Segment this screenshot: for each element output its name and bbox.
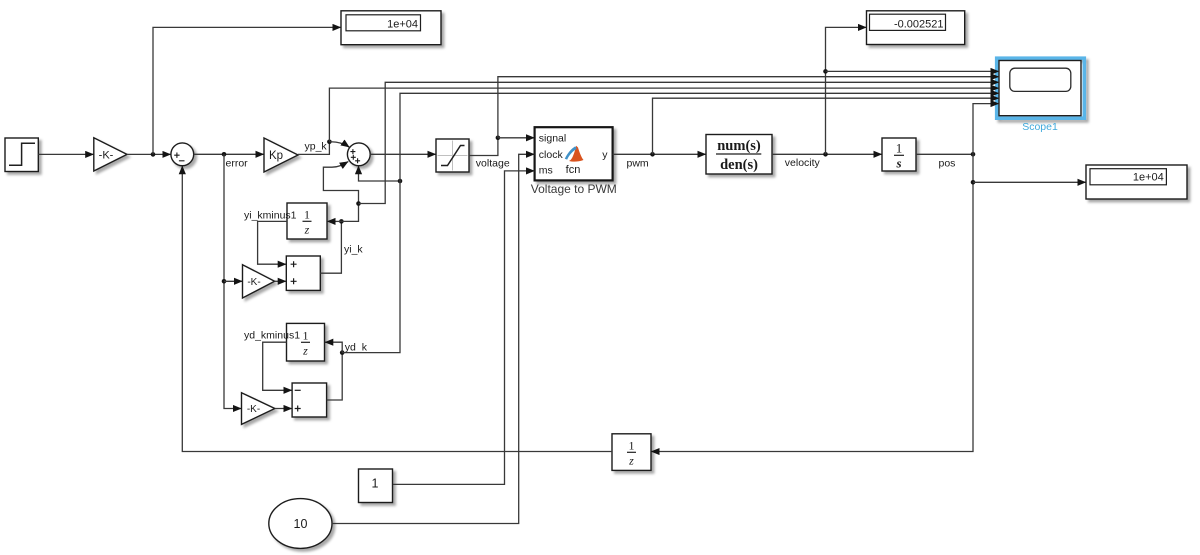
svg-text:pos: pos xyxy=(939,157,956,169)
constant ellipse 10 xyxy=(269,499,332,549)
sum3 circle (+ + +) xyxy=(347,143,370,166)
step source block xyxy=(5,138,38,172)
node pos xyxy=(971,152,976,157)
gain -K- (input scaling) xyxy=(94,138,127,171)
wire fcn y out to transfer fcn xyxy=(613,153,706,155)
wire tap up to display 1e+04 xyxy=(153,27,341,154)
svg-text:-K-: -K- xyxy=(99,149,114,161)
svg-text:num(s): num(s) xyxy=(717,138,761,154)
wire Kp out yp_k xyxy=(298,142,329,155)
gain -K- integral xyxy=(243,265,275,298)
svg-text:yi_kminus1: yi_kminus1 xyxy=(244,209,297,221)
wire yd 1/z out to yd sum xyxy=(263,342,292,390)
node velocity xyxy=(823,152,828,157)
svg-text:z: z xyxy=(302,344,308,358)
wire voltage up to scope port2 xyxy=(498,77,999,138)
saturation block xyxy=(436,139,469,172)
scope block Scope1 xyxy=(997,58,1085,133)
wire yi_k jog up xyxy=(341,204,358,222)
svg-text:Kp: Kp xyxy=(269,150,283,162)
wire yd_k branch into sum3 bottom input xyxy=(359,166,401,181)
sum1 circle (+ -) xyxy=(171,143,194,166)
svg-text:signal: signal xyxy=(539,132,566,144)
svg-text:Scope1: Scope1 xyxy=(1022,121,1058,133)
wire derivative gain to yd sum xyxy=(275,408,292,410)
yi sum block (+ +) xyxy=(286,256,320,290)
wire pwm up to scope port6 xyxy=(653,98,1000,154)
svg-text:-0.002521: -0.002521 xyxy=(894,19,944,31)
node pwm xyxy=(650,152,655,157)
svg-text:yi_k: yi_k xyxy=(344,244,363,256)
display block 1e+04 (bottom right) xyxy=(1086,165,1187,199)
svg-text:10: 10 xyxy=(294,517,308,531)
wire yi_k up to scope port3 xyxy=(359,82,1000,203)
wire pos down to feedback delay xyxy=(651,154,973,451)
svg-text:yd_kminus1: yd_kminus1 xyxy=(244,329,300,341)
svg-text:-K-: -K- xyxy=(247,277,260,288)
integrator block 1/s xyxy=(882,138,916,171)
wire pos to display 1e+04 (right) xyxy=(973,181,1086,183)
node yi_k upper xyxy=(356,201,361,206)
unit delay feedback 1/z (bottom) xyxy=(612,434,651,471)
wire yd_k up to scope port5 xyxy=(342,93,999,352)
node yp_k xyxy=(327,140,332,145)
wire constant 1 to fcn ms port xyxy=(393,171,535,485)
unit delay yi 1/z xyxy=(287,203,327,239)
wire velocity to scope port1 xyxy=(826,70,1000,72)
svg-text:velocity: velocity xyxy=(785,157,821,169)
wire error down to derivative gain xyxy=(224,154,242,408)
node error to integral gain xyxy=(222,279,227,284)
node velocity scope tap xyxy=(823,69,828,74)
wire velocity up to display -0.002521 xyxy=(826,27,867,154)
svg-text:y: y xyxy=(602,149,608,161)
wire constant 10 to fcn clock port xyxy=(332,154,535,523)
wire yd_k into 1/z input xyxy=(325,342,343,352)
wire feedback to sum1 bottom xyxy=(182,166,612,452)
svg-text:yp_k: yp_k xyxy=(305,141,328,153)
MATLAB function block Voltage to PWM xyxy=(531,127,617,196)
svg-text:1e+04: 1e+04 xyxy=(1133,171,1164,183)
svg-text:z: z xyxy=(628,454,634,468)
display block 1e+04 (top) xyxy=(341,11,441,45)
wire step to gain xyxy=(38,153,94,155)
node error xyxy=(222,152,227,157)
svg-text:-K-: -K- xyxy=(247,404,260,415)
constant block 1 xyxy=(359,469,393,503)
node pos display tap xyxy=(971,180,976,185)
svg-text:clock: clock xyxy=(539,149,564,161)
svg-text:1e+04: 1e+04 xyxy=(387,19,418,31)
svg-text:Voltage to PWM: Voltage to PWM xyxy=(531,182,617,196)
wire yi 1/z out to yi sum xyxy=(258,221,287,264)
svg-text:1: 1 xyxy=(896,141,903,156)
node yi_k xyxy=(339,219,344,224)
transfer fcn block num(s)/den(s) xyxy=(706,135,772,175)
unit delay yd 1/z xyxy=(287,323,325,361)
svg-text:pwm: pwm xyxy=(627,157,649,169)
gain Kp xyxy=(264,138,298,172)
wire pos up to scope port7 xyxy=(973,104,999,155)
wire gain to sum1 xyxy=(127,153,171,155)
wire velocity to integrator xyxy=(772,153,882,155)
wire yp_k curve into sum3 xyxy=(329,142,349,148)
svg-text:1: 1 xyxy=(372,477,379,491)
node voltage xyxy=(496,136,501,141)
svg-text:ms: ms xyxy=(539,165,553,177)
node after gain xyxy=(151,152,156,157)
svg-text:voltage: voltage xyxy=(476,157,510,169)
wire error branch to integral gain xyxy=(224,280,243,282)
svg-text:1: 1 xyxy=(304,208,310,222)
svg-text:s: s xyxy=(895,156,901,171)
svg-text:den(s): den(s) xyxy=(720,157,758,173)
wire yd sum out (yd_k) xyxy=(327,353,343,400)
wire saturation out (voltage) xyxy=(469,138,498,156)
yd sum block (- +) xyxy=(292,383,327,417)
svg-text:yd_k: yd_k xyxy=(345,341,368,353)
svg-text:z: z xyxy=(304,223,310,237)
wire yp_k up to scope port4 xyxy=(329,88,999,142)
svg-text:1: 1 xyxy=(303,329,309,343)
wire voltage to fcn signal port xyxy=(498,137,535,139)
node yd_k xyxy=(340,350,345,355)
display block -0.002521 xyxy=(867,11,965,45)
svg-text:fcn: fcn xyxy=(566,164,581,176)
wire yi sum out (yi_k) xyxy=(320,221,341,273)
wire sum1 to Kp with error label xyxy=(194,153,264,155)
wire yi_k route into sum3 second input xyxy=(323,162,358,204)
node yd_k branch xyxy=(398,179,403,184)
svg-text:error: error xyxy=(226,158,249,170)
gain -K- derivative xyxy=(242,393,275,425)
wire integral gain to yi sum xyxy=(275,280,287,282)
wire integrator out pos xyxy=(916,153,973,155)
wire sum3 to saturation xyxy=(370,153,436,155)
svg-text:1: 1 xyxy=(629,439,635,453)
wire yi_k into 1/z input xyxy=(327,220,341,222)
